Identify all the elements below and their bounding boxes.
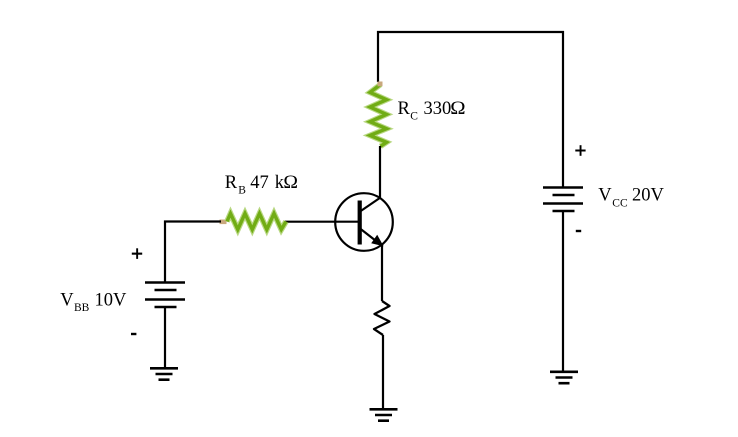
ground: VCC ground symbol — [550, 372, 578, 383]
wire: emitter wire from transistor down to RE — [381, 244, 383, 301]
ground: VBB ground symbol — [150, 368, 178, 379]
svg-text:B: B — [238, 185, 246, 197]
transistor Q1 circle — [335, 193, 393, 251]
ground: emitter ground symbol — [370, 409, 398, 420]
svg-text:R: R — [398, 99, 411, 119]
svg-text:20V: 20V — [632, 186, 665, 206]
wire: from VBB top corner to RB — [164, 220, 221, 222]
svg-text:CC: CC — [612, 198, 628, 210]
wire: top horizontal rail from RC branch to VCC — [377, 31, 564, 33]
svg-text:10V: 10V — [95, 291, 128, 311]
wire: base wire from RB to transistor — [285, 221, 358, 223]
battery VCC — [543, 188, 583, 212]
svg-text:R: R — [225, 173, 238, 193]
value label VBB 10V — [60, 291, 127, 315]
svg-text:V: V — [598, 186, 612, 206]
svg-text:C: C — [410, 111, 418, 123]
transistor Q1 collector diagonal — [360, 198, 381, 212]
value label RC 330ohm — [398, 99, 466, 123]
wire: VBB battery - plate down to ground — [164, 308, 166, 368]
wire: VCC battery - plate down to ground — [562, 212, 564, 371]
wire: vertical from top rail down to RC — [377, 31, 379, 82]
wire: from RE down to ground — [382, 335, 384, 409]
wire: VCC vertical from top rail down to battery + plate — [562, 31, 564, 187]
wire: collector wire from RC down to transistor — [379, 146, 381, 199]
value label VCC 20V — [598, 186, 664, 210]
label: - of VBB — [131, 333, 136, 335]
svg-text:BB: BB — [74, 302, 90, 314]
resistor RC 330 ohm (green zigzag, vertical) — [370, 82, 387, 147]
label: - of VCC — [576, 230, 581, 232]
resistor RE (black zigzag, vertical) — [374, 301, 390, 335]
label: + of VBB — [132, 248, 142, 259]
svg-text:V: V — [60, 291, 74, 311]
svg-text:Ω: Ω — [283, 173, 298, 193]
label: + of VCC — [575, 145, 585, 156]
svg-text:330: 330 — [424, 99, 452, 119]
battery VBB — [145, 283, 185, 308]
value label RB 47 kohm — [225, 173, 298, 197]
resistor RB 47k (green zigzag, horizontal) — [220, 214, 287, 230]
wire: VBB vertical down to battery + plate — [164, 221, 166, 282]
svg-text:47: 47 — [250, 173, 268, 193]
transistor Q1 base bar — [358, 201, 362, 245]
svg-text:Ω: Ω — [450, 99, 465, 119]
transistor Q1 emitter diagonal with arrow — [360, 229, 378, 243]
